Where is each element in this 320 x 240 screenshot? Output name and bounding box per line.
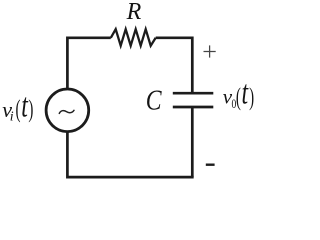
- wire: bottom horizontal segment and left riser to source: [67, 132, 193, 177]
- minus sign: [206, 163, 215, 165]
- source V1 (sinusoidal voltage source): [46, 89, 89, 132]
- wire: left branch top (corner to resistor): [67, 38, 110, 89]
- capacitor C top plate: [173, 92, 214, 95]
- svg-text:i: i: [10, 110, 14, 125]
- svg-text:(: (: [16, 96, 21, 123]
- label vo(t): [223, 75, 254, 112]
- wire: right branch bottom (capacitor to bottom wire): [191, 107, 194, 177]
- plus sign: [204, 45, 216, 57]
- svg-text:C: C: [146, 85, 162, 117]
- svg-text:): ): [28, 96, 33, 123]
- label vi(t): [2, 87, 33, 124]
- resistor R: [111, 29, 156, 46]
- svg-text:(: (: [236, 84, 241, 111]
- wire: top-right segment (resistor to corner, down to capacitor): [156, 38, 193, 93]
- svg-text:t: t: [242, 75, 250, 112]
- tilde inside source: [59, 110, 74, 113]
- svg-text:): ): [249, 84, 254, 111]
- svg-text:R: R: [126, 0, 142, 25]
- capacitor C bottom plate: [173, 106, 214, 109]
